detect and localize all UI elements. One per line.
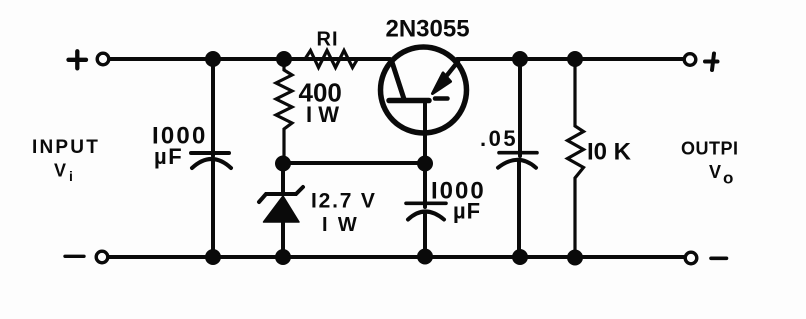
svg-text:I W: I W bbox=[306, 102, 339, 127]
svg-text:o: o bbox=[723, 169, 733, 188]
svg-text:RI: RI bbox=[317, 29, 339, 51]
svg-text:OUTPI: OUTPI bbox=[681, 139, 739, 159]
svg-text:INPUT: INPUT bbox=[32, 137, 100, 158]
svg-text:2N3055: 2N3055 bbox=[386, 16, 470, 43]
svg-text:I0 K: I0 K bbox=[587, 139, 632, 166]
svg-text:V: V bbox=[54, 161, 66, 181]
svg-text:.05: .05 bbox=[480, 126, 518, 151]
svg-text:i: i bbox=[69, 168, 73, 184]
svg-text:µF: µF bbox=[154, 144, 183, 169]
svg-text:V: V bbox=[709, 162, 721, 182]
svg-text:I2.7 V: I2.7 V bbox=[311, 190, 377, 213]
svg-text:µF: µF bbox=[453, 199, 481, 224]
svg-text:I W: I W bbox=[322, 214, 359, 236]
